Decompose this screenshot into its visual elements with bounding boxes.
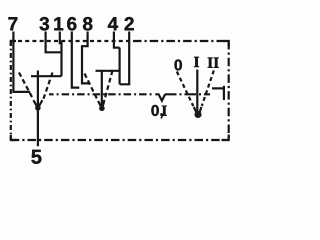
position label I xyxy=(194,57,199,67)
contact bar W1 xyxy=(31,75,62,77)
terminal 2 wire xyxy=(120,32,130,85)
switch housing left border xyxy=(10,41,12,140)
position label 0 xyxy=(175,59,182,70)
fixed contact riser (border to bar) xyxy=(60,41,62,76)
indicator dashed diagonal to 0 xyxy=(177,72,194,107)
position indicator stem xyxy=(196,70,198,111)
terminal label 3 xyxy=(40,17,49,30)
mechanical linkage dash-dot line xyxy=(49,93,152,95)
terminal 8 wire with jog and hook xyxy=(82,32,90,84)
junction dot W1 xyxy=(35,105,41,111)
housing corner top-left xyxy=(11,41,16,46)
housing corner bottom-left xyxy=(11,135,17,140)
terminal label 6 xyxy=(67,17,76,30)
switch housing bottom border xyxy=(11,139,229,141)
indicator fixed contact T xyxy=(212,86,224,100)
wiper position dashed diagonal left W1 xyxy=(19,73,33,100)
terminal label 4 xyxy=(108,17,118,30)
cam contact V notch (0,I) xyxy=(155,94,165,100)
terminal label 2 xyxy=(125,17,134,30)
terminal 6 wire with hook xyxy=(72,32,80,88)
terminal label 8 xyxy=(83,17,92,30)
terminal 5 wire label xyxy=(31,150,41,164)
wiper arm W1 to terminal 5 xyxy=(37,71,39,147)
position label II xyxy=(208,58,219,68)
housing corner top-right xyxy=(224,41,229,47)
contact position label 0,I xyxy=(151,105,162,118)
wiper position dashed diagonal right W1 xyxy=(43,73,52,100)
terminal 7 wire xyxy=(13,32,30,92)
wiper position dashed diagonal right W2 xyxy=(105,71,113,99)
wiper position dashed diagonal left W2 xyxy=(85,74,98,101)
switch housing top border (dash-dot) xyxy=(11,40,133,42)
junction dot W2 xyxy=(99,106,105,112)
wiper arm W2 xyxy=(101,71,103,106)
terminal label 7 xyxy=(8,17,17,30)
indicator dashed diagonal to II xyxy=(202,71,214,107)
switch housing right border xyxy=(228,41,230,140)
housing corner bottom-right xyxy=(222,135,229,141)
terminal label 1 xyxy=(54,17,63,30)
contact bar W2 xyxy=(96,70,120,72)
terminal 3 wire with U dip xyxy=(46,32,62,53)
indicator pivot dot xyxy=(194,111,201,118)
riser joining t4/t2 to bar W2 xyxy=(118,48,120,85)
terminal 1 stub xyxy=(59,32,61,45)
terminal 4 wire with jog xyxy=(114,32,120,48)
